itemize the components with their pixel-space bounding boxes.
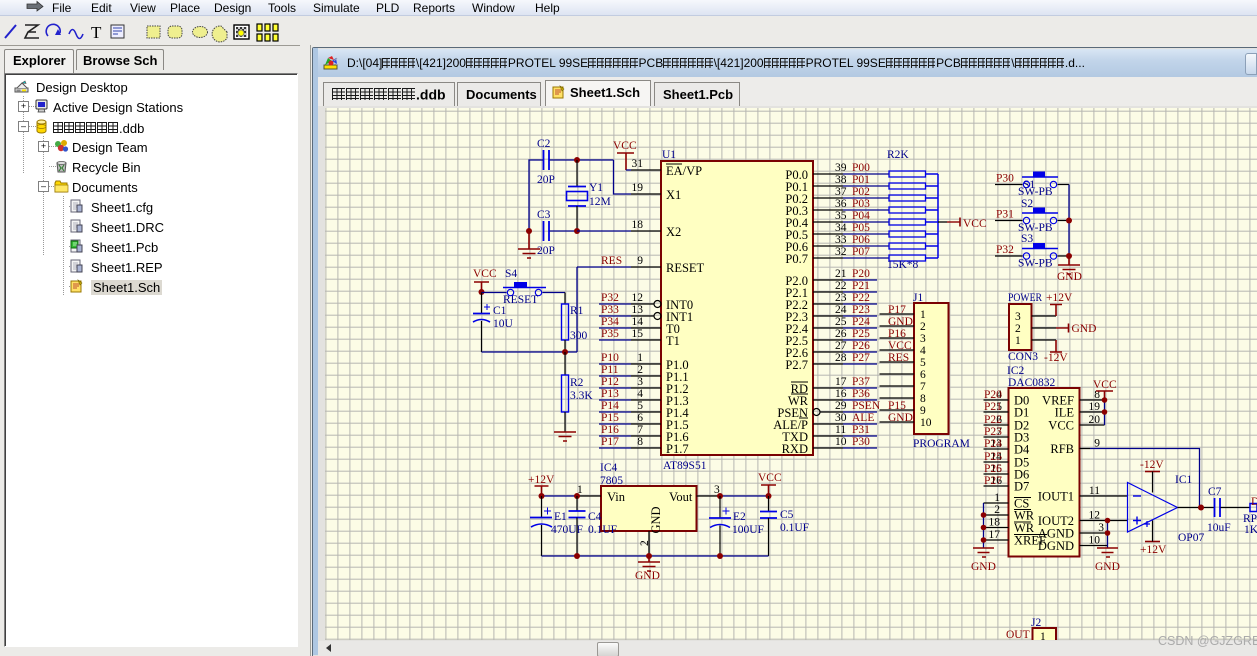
- pin 20 VCC: [1048, 414, 1104, 433]
- svg-text:29: 29: [835, 400, 847, 412]
- svg-text:10: 10: [1089, 535, 1101, 547]
- svg-text:P05: P05: [852, 222, 870, 234]
- svg-text:P33: P33: [601, 304, 619, 316]
- svg-text:P25: P25: [984, 451, 1002, 463]
- wire net P30: [843, 436, 877, 448]
- pin 33 P0.6: [785, 234, 846, 254]
- svg-text:X2: X2: [666, 225, 681, 239]
- wire op-amp output: [1178, 507, 1215, 509]
- svg-text:Y1: Y1: [589, 182, 603, 194]
- svg-text:30: 30: [835, 412, 847, 424]
- svg-text:P37: P37: [852, 376, 870, 388]
- svg-text:15: 15: [632, 328, 644, 340]
- pin 2 CON3: [1015, 323, 1056, 335]
- pin 26 P2.5: [785, 328, 846, 348]
- wire RES to RESET pin: [577, 255, 631, 267]
- svg-text:P11: P11: [601, 364, 619, 376]
- svg-text:DGND: DGND: [1038, 539, 1074, 553]
- wire S3 to GND bus: [1058, 255, 1070, 257]
- svg-text:1: 1: [994, 492, 1000, 504]
- wire net P14: [599, 400, 631, 412]
- svg-text:U1: U1: [662, 149, 676, 161]
- node S2 bus junction: [1066, 218, 1072, 224]
- power -12V (CON3): [1044, 340, 1068, 364]
- wire net P37: [843, 376, 877, 388]
- pin 8 J1: [880, 393, 927, 405]
- pin 4 D0: [984, 389, 1030, 408]
- svg-text:9: 9: [637, 255, 643, 267]
- svg-text:P26: P26: [852, 340, 870, 352]
- ground (under C2/C3 bus): [518, 231, 540, 258]
- svg-text:18: 18: [632, 219, 644, 231]
- svg-text:IC2: IC2: [1007, 365, 1025, 377]
- svg-text:+12V: +12V: [528, 474, 555, 486]
- svg-text:OUT: OUT: [1006, 629, 1030, 640]
- pin 3 CON3: [1015, 311, 1056, 323]
- pin 19 ILE: [1055, 401, 1105, 420]
- power +12V (CON3): [1046, 292, 1073, 316]
- svg-text:33: 33: [835, 234, 847, 246]
- switch S2 push-button SW-PB: [1018, 198, 1058, 234]
- svg-text:6: 6: [637, 412, 643, 424]
- svg-text:VCC: VCC: [473, 268, 497, 280]
- pin 19 X1: [631, 182, 681, 202]
- IC U1 AT89S51 microcontroller body: [661, 149, 813, 472]
- pin 2 J1: [880, 316, 927, 333]
- svg-text:C3: C3: [537, 209, 551, 221]
- svg-text:10: 10: [920, 417, 932, 429]
- wire C3 right to node: [550, 230, 578, 232]
- wire net P36: [843, 388, 877, 400]
- wire RFB feedback: [1090, 449, 1200, 508]
- pin 28 P2.7: [785, 352, 846, 372]
- svg-text:13: 13: [632, 304, 644, 316]
- wire net P07: [843, 246, 889, 258]
- pin 12 IOUT2: [1038, 510, 1128, 529]
- wire C2 left to bus: [529, 160, 543, 231]
- svg-text:GND: GND: [1072, 323, 1097, 335]
- node C3 left junction: [526, 228, 532, 234]
- wire output rail: [717, 493, 772, 499]
- pin 38 P0.1: [785, 174, 846, 194]
- svg-text:31: 31: [632, 158, 644, 170]
- svg-text:P27: P27: [852, 352, 870, 364]
- svg-text:17: 17: [835, 376, 847, 388]
- pin 36 P0.3: [785, 198, 846, 218]
- svg-text:GND: GND: [971, 561, 996, 573]
- pin 2 7805: [639, 531, 651, 556]
- pin 13 D4: [984, 438, 1031, 457]
- svg-text:P22: P22: [852, 292, 870, 304]
- pin 14 T0: [631, 316, 680, 336]
- svg-text:12: 12: [1089, 510, 1101, 522]
- left panel: [0, 45, 300, 656]
- svg-text:8: 8: [920, 393, 926, 405]
- horizontal scrollbar: [318, 641, 1257, 656]
- connector J1 PROGRAM: [913, 292, 970, 450]
- svg-text:P17: P17: [601, 436, 619, 448]
- node ctrl junctions: [981, 512, 987, 543]
- svg-text:35: 35: [835, 210, 847, 222]
- wire net P03: [843, 198, 889, 210]
- pin 16 D7: [984, 475, 1030, 494]
- svg-text:P04: P04: [852, 210, 870, 222]
- capacitor C5: [760, 496, 809, 556]
- svg-text:38: 38: [835, 174, 847, 186]
- svg-text:D1: D1: [1014, 406, 1029, 420]
- svg-text:18: 18: [989, 517, 1001, 529]
- svg-text:+12V: +12V: [1046, 292, 1073, 304]
- svg-text:17: 17: [989, 529, 1001, 541]
- resistor RP (partial): [1243, 496, 1257, 536]
- IC IC2 DAC0832 body: [1007, 365, 1080, 557]
- pin 10 DGND: [1038, 535, 1108, 554]
- schematic canvas: [325, 108, 1257, 640]
- wire net P23 (DAC): [984, 426, 1002, 438]
- svg-text:D4: D4: [1014, 443, 1030, 457]
- svg-text:C1: C1: [493, 305, 507, 317]
- wire net P32: [599, 292, 631, 304]
- svg-text:P30: P30: [996, 173, 1014, 185]
- svg-text:C2: C2: [537, 138, 551, 150]
- svg-text:R2K: R2K: [887, 149, 909, 161]
- pin 10 RXD: [782, 436, 847, 456]
- pin 4 J1: [880, 340, 927, 357]
- power +12V (7805 input): [528, 474, 555, 496]
- svg-text:P32: P32: [996, 244, 1014, 256]
- main window: [310, 45, 311, 656]
- pin 5 J1: [880, 352, 927, 369]
- ground (DAC left): [971, 548, 996, 573]
- pin 7 J1: [880, 381, 927, 393]
- svg-text:VCC: VCC: [1093, 379, 1117, 391]
- svg-text:P23: P23: [984, 426, 1002, 438]
- wire net P10: [599, 352, 631, 364]
- wire net P01: [843, 174, 889, 186]
- power GND (CON3): [1056, 323, 1096, 335]
- svg-text:RES: RES: [601, 255, 622, 267]
- svg-text:P21: P21: [984, 401, 1002, 413]
- svg-text:P21: P21: [852, 280, 870, 292]
- svg-text:P35: P35: [601, 328, 619, 340]
- pin 6 J1: [880, 369, 927, 381]
- svg-text:4: 4: [637, 388, 643, 400]
- pin 29 PSEN: [777, 400, 846, 420]
- svg-text:2: 2: [920, 321, 926, 333]
- svg-text:39: 39: [835, 162, 847, 174]
- wire net P26 (DAC): [984, 463, 1002, 475]
- svg-text:10: 10: [835, 436, 847, 448]
- svg-text:23: 23: [835, 292, 847, 304]
- svg-text:P00: P00: [852, 162, 870, 174]
- svg-text:+12V: +12V: [1140, 544, 1167, 556]
- svg-text:11: 11: [835, 424, 846, 436]
- wire net P12: [599, 376, 631, 388]
- wire net P27: [843, 352, 877, 364]
- svg-text:S3: S3: [1021, 233, 1033, 245]
- svg-text:P20: P20: [852, 268, 870, 280]
- wire ground rail: [542, 553, 769, 559]
- svg-text:E1: E1: [554, 511, 567, 523]
- svg-text:Vout: Vout: [669, 490, 693, 504]
- svg-text:28: 28: [835, 352, 847, 364]
- wire S4 to R1: [543, 292, 566, 294]
- pin 11 TXD: [782, 424, 846, 444]
- toolbar: [0, 16, 1257, 45]
- pin 3 AGND: [1038, 522, 1108, 541]
- node VCC/S4/C1 junction: [479, 289, 485, 295]
- wire VCC to S4: [482, 292, 507, 294]
- node S3 bus junction: [1066, 253, 1072, 259]
- pin 32 P0.7: [785, 246, 846, 266]
- svg-text:-12V: -12V: [1140, 459, 1164, 471]
- svg-text:E2: E2: [733, 511, 746, 523]
- pin 6 D2: [984, 414, 1030, 433]
- power -12V (op-amp): [1140, 459, 1164, 493]
- wire net P33: [599, 304, 631, 316]
- node C2/Y1 junction: [574, 157, 580, 163]
- capacitor C4: [569, 496, 618, 556]
- pin 2 P1.1: [631, 364, 689, 384]
- svg-text:VCC: VCC: [1048, 419, 1074, 433]
- pin 14 D5: [984, 451, 1030, 470]
- capacitor E1 electrolytic: [530, 496, 583, 556]
- svg-text:P20: P20: [984, 389, 1002, 401]
- svg-text:PSEN: PSEN: [852, 400, 881, 412]
- pin 8 P1.7: [631, 436, 689, 456]
- pin 4 P1.3: [631, 388, 689, 408]
- pin 6 P1.5: [631, 412, 689, 432]
- svg-text:1: 1: [920, 309, 926, 321]
- svg-text:20P: 20P: [537, 245, 555, 257]
- pin 1 CON3: [1015, 335, 1056, 347]
- connector CON3 POWER: [1008, 292, 1042, 363]
- svg-text:P31: P31: [996, 209, 1014, 221]
- svg-text:IC1: IC1: [1175, 474, 1193, 486]
- svg-text:1: 1: [1040, 631, 1046, 640]
- svg-text:GND: GND: [1057, 271, 1082, 283]
- capacitor C1 electrolytic: [473, 293, 514, 353]
- wire net P04: [843, 210, 889, 222]
- switch S3 push-button SW-PB: [1018, 233, 1058, 270]
- svg-text:P22: P22: [984, 414, 1002, 426]
- svg-text:9: 9: [920, 405, 926, 417]
- pin 17 XREF: [984, 529, 1048, 548]
- svg-text:20: 20: [1089, 414, 1101, 426]
- pin 9 J1: [880, 400, 927, 417]
- svg-text:C5: C5: [780, 509, 794, 521]
- svg-text:P14: P14: [601, 400, 619, 412]
- switch S1 push-button SW-PB: [1018, 172, 1058, 199]
- svg-text:P13: P13: [601, 388, 619, 400]
- wire net P21: [843, 280, 877, 292]
- svg-text:3: 3: [637, 376, 643, 388]
- svg-text:VCC: VCC: [758, 472, 782, 484]
- svg-text:P07: P07: [852, 246, 870, 258]
- svg-text:100UF: 100UF: [732, 524, 764, 536]
- svg-text:22: 22: [835, 280, 847, 292]
- power +12V (op-amp): [1140, 521, 1167, 557]
- wire net P32: [995, 244, 1023, 256]
- svg-text:0.1UF: 0.1UF: [588, 524, 617, 536]
- svg-text:3: 3: [920, 333, 926, 345]
- svg-text:16: 16: [835, 388, 847, 400]
- svg-text:32: 32: [835, 246, 847, 258]
- pin 5 P1.4: [631, 400, 689, 420]
- pin 10 J1: [880, 412, 932, 429]
- pin 11 IOUT1: [1038, 485, 1128, 504]
- svg-text:34: 34: [835, 222, 847, 234]
- wire net P23: [843, 304, 877, 316]
- svg-text:470UF: 470UF: [551, 524, 583, 536]
- wire net P06: [843, 234, 889, 246]
- wire net P21 (DAC): [984, 401, 1002, 413]
- svg-text:RESET: RESET: [503, 294, 538, 306]
- svg-text:19: 19: [632, 182, 644, 194]
- svg-text:RXD: RXD: [782, 442, 808, 456]
- resistor R2: [562, 352, 594, 432]
- svg-text:25: 25: [835, 316, 847, 328]
- switch S4 push-button SW-PB: [503, 268, 546, 306]
- pin 1 P1.0: [631, 352, 689, 372]
- pin 1 7805: [577, 484, 601, 496]
- wire net P20 (DAC): [984, 389, 1002, 401]
- pin 13 INT1: [631, 304, 693, 324]
- capacitor C7: [1207, 486, 1231, 534]
- svg-text:2: 2: [639, 540, 651, 546]
- svg-text:RESET: RESET: [666, 261, 705, 275]
- svg-text:P25: P25: [852, 328, 870, 340]
- pin 2 WR: [984, 504, 1035, 523]
- pin 31 EA/VP: [631, 158, 702, 178]
- svg-text:19: 19: [1089, 401, 1101, 413]
- svg-text:3: 3: [1098, 522, 1104, 534]
- svg-text:VCC: VCC: [888, 340, 912, 352]
- svg-text:S4: S4: [505, 268, 517, 280]
- pin 3 P1.2: [631, 376, 689, 396]
- svg-text:1: 1: [1015, 335, 1021, 347]
- pin 1 CS: [984, 492, 1032, 511]
- svg-text:GND: GND: [1095, 561, 1120, 573]
- svg-text:2: 2: [637, 364, 643, 376]
- crystal Y1: [567, 160, 611, 231]
- svg-text:X1: X1: [666, 188, 681, 202]
- wire C7 to RP: [1221, 507, 1251, 509]
- wire net P11: [599, 364, 631, 376]
- wire S2 to GND bus: [1058, 220, 1070, 222]
- svg-text:300: 300: [570, 330, 588, 342]
- pin 9 RESET: [631, 255, 705, 275]
- svg-text:IOUT1: IOUT1: [1038, 490, 1074, 504]
- wire net ALE: [843, 412, 877, 424]
- svg-text:S2: S2: [1021, 198, 1033, 210]
- svg-text:20P: 20P: [537, 174, 555, 186]
- svg-text:P06: P06: [852, 234, 870, 246]
- svg-text:5: 5: [637, 400, 643, 412]
- svg-text:P32: P32: [601, 292, 619, 304]
- svg-text:C7: C7: [1208, 486, 1222, 498]
- ground (under R2): [554, 432, 576, 441]
- svg-text:GND: GND: [888, 316, 913, 328]
- wire net P20: [843, 268, 877, 280]
- svg-text:P10: P10: [601, 352, 619, 364]
- pin 9 RFB: [1050, 438, 1100, 457]
- svg-text:RES: RES: [888, 352, 909, 364]
- svg-text:12: 12: [632, 292, 644, 304]
- svg-text:6: 6: [920, 369, 926, 381]
- node Y1/C3/X2 junction: [574, 228, 580, 234]
- node output junction: [1198, 505, 1204, 511]
- svg-text:P15: P15: [888, 400, 906, 412]
- pin 8 VREF: [1042, 389, 1104, 408]
- wire net P27 (DAC): [984, 475, 1002, 487]
- svg-text:3.3K: 3.3K: [570, 390, 593, 402]
- svg-text:2: 2: [1015, 323, 1021, 335]
- svg-text:P23: P23: [852, 304, 870, 316]
- capacitor C2: [537, 138, 555, 186]
- wire DAC ctrl bus: [983, 503, 985, 548]
- svg-text:P27: P27: [984, 475, 1002, 487]
- svg-text:3: 3: [1015, 311, 1021, 323]
- svg-text:7: 7: [920, 381, 926, 393]
- capacitor C3: [537, 209, 555, 257]
- pin 23 P2.2: [785, 292, 846, 312]
- pin 15 T1: [631, 328, 680, 348]
- wire input rail: [539, 493, 581, 499]
- pin 25 P2.4: [785, 316, 846, 336]
- resistor R1: [562, 293, 588, 353]
- svg-text:POWER: POWER: [1008, 292, 1042, 304]
- svg-text:SW-PB: SW-PB: [1018, 186, 1053, 198]
- svg-text:P03: P03: [852, 198, 870, 210]
- pin 21 P2.0: [785, 268, 846, 288]
- svg-text:ALE: ALE: [852, 412, 874, 424]
- svg-text:D: D: [1251, 496, 1257, 508]
- wire net P31: [843, 424, 877, 436]
- IC IC4 7805 regulator body: [600, 462, 697, 534]
- wire net P17: [599, 436, 631, 448]
- svg-text:27: 27: [835, 340, 847, 352]
- wire net P25 (DAC): [984, 451, 1002, 463]
- wire net P15: [599, 412, 631, 424]
- pin 5 D1: [984, 401, 1030, 420]
- pin 7 D3: [984, 426, 1030, 445]
- capacitor E2 electrolytic: [709, 496, 764, 556]
- svg-text:P24: P24: [984, 438, 1002, 450]
- wire net P35: [599, 328, 631, 340]
- svg-text:P02: P02: [852, 186, 870, 198]
- pin 3 J1: [880, 328, 927, 345]
- pin 39 P0.0: [785, 162, 846, 182]
- wire net P22: [843, 292, 877, 304]
- svg-text:GND: GND: [635, 570, 660, 582]
- svg-text:Vin: Vin: [607, 490, 626, 504]
- pin 16 WR: [788, 388, 847, 408]
- svg-text:-12V: -12V: [1044, 352, 1068, 364]
- ground (7805): [635, 556, 660, 582]
- svg-text:10U: 10U: [493, 318, 514, 330]
- svg-text:AT89S51: AT89S51: [663, 460, 707, 472]
- svg-text:PROGRAM: PROGRAM: [913, 438, 970, 450]
- svg-text:P34: P34: [601, 316, 619, 328]
- svg-text:P2.7: P2.7: [785, 358, 808, 372]
- svg-text:P31: P31: [852, 424, 870, 436]
- wire C2 right to node: [550, 159, 614, 161]
- pin 27 P2.6: [785, 340, 846, 360]
- wire X2: [577, 230, 631, 232]
- pin 3 7805: [697, 484, 721, 496]
- svg-text:0.1UF: 0.1UF: [780, 522, 809, 534]
